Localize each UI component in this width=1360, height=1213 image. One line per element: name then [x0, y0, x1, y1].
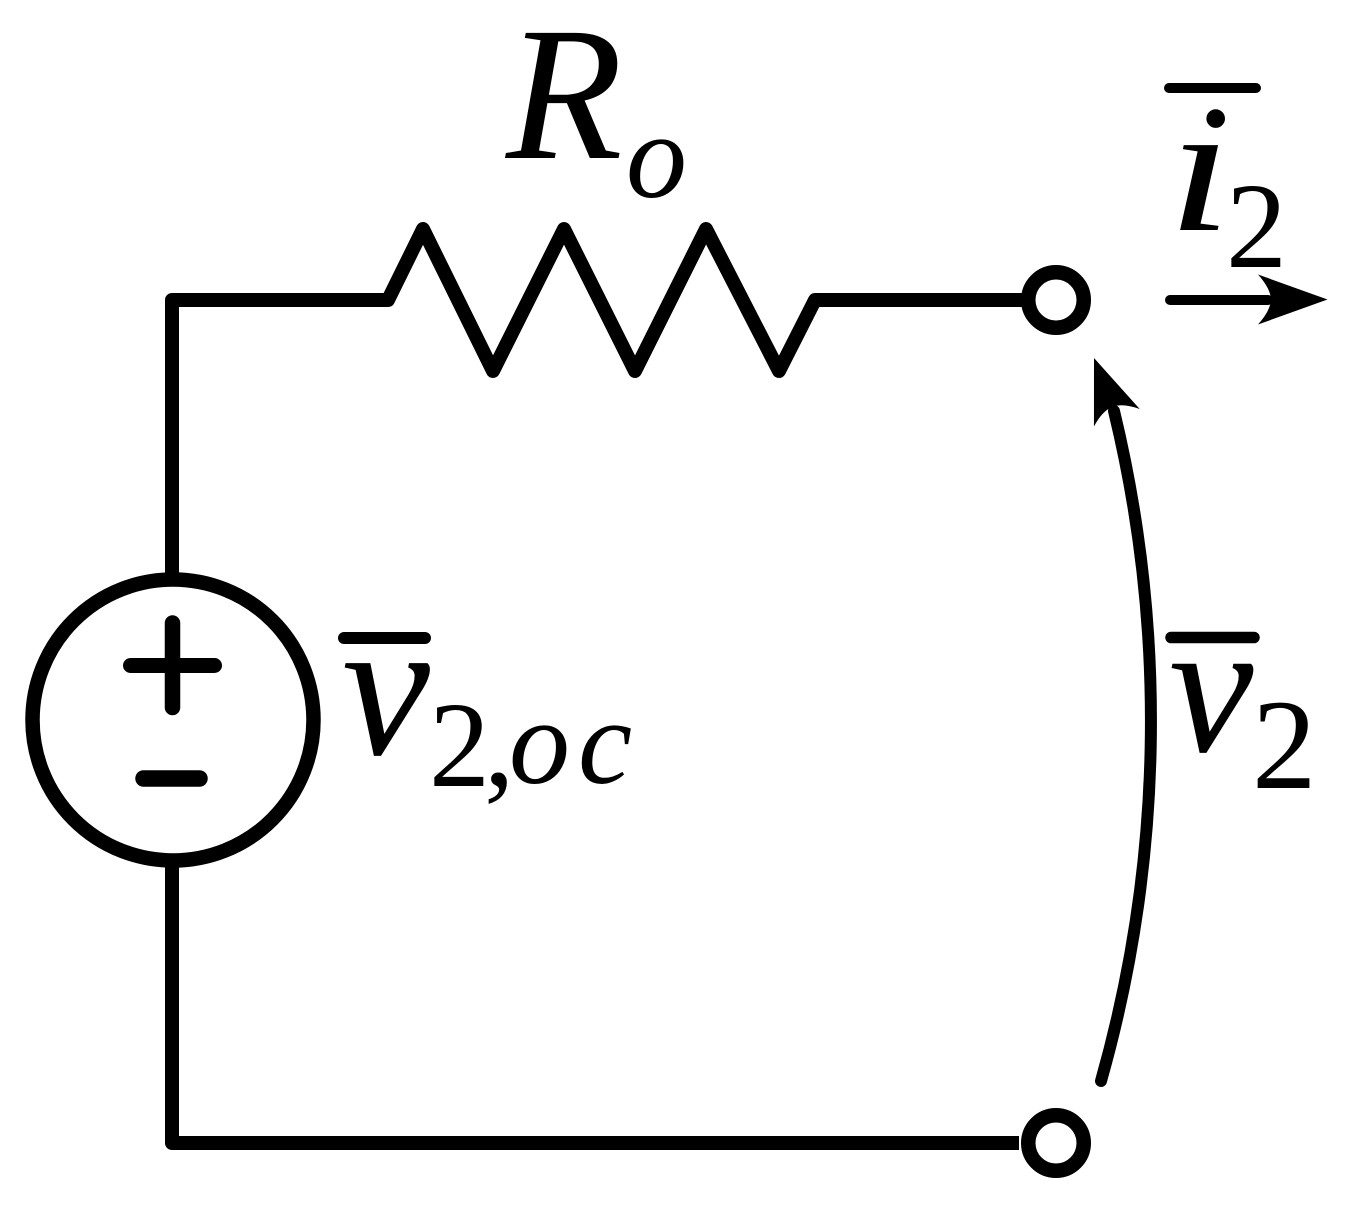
- resistor R_o zigzag and right top wire: [370, 229, 1026, 371]
- voltage arc arrow v2 (curved shaft): [1101, 411, 1151, 1081]
- svg-text:2: 2: [429, 678, 490, 813]
- voltage arc arrow v2 head: [1071, 349, 1140, 426]
- label i2 overbar: [1169, 83, 1256, 93]
- svg-text:oc: oc: [509, 675, 640, 810]
- label v2 (right): [1169, 583, 1317, 816]
- minus polarity mark: [144, 770, 200, 787]
- terminal bottom-right: [1028, 1115, 1084, 1171]
- label R_o: [504, 0, 687, 224]
- label i2 subscript 2: [1226, 159, 1287, 294]
- svg-text:o: o: [626, 89, 687, 224]
- current arrow i2 shaft: [1170, 295, 1268, 305]
- label i2 body (dotless i): [1168, 66, 1233, 271]
- wire left and bottom loop: [172, 300, 1019, 1143]
- svg-text:ı: ı: [1168, 66, 1233, 271]
- plus polarity mark: [131, 623, 215, 708]
- current arrow i2 head: [1258, 275, 1328, 325]
- svg-text:2: 2: [1252, 673, 1317, 816]
- svg-text:2: 2: [1226, 159, 1287, 294]
- label v2 (right) overbar: [1171, 632, 1254, 644]
- label v2,oc overbar: [344, 632, 425, 644]
- svg-text:v: v: [342, 578, 430, 797]
- svg-text:v: v: [1169, 583, 1254, 793]
- svg-text:R: R: [504, 0, 623, 200]
- terminal top-right: [1028, 272, 1084, 328]
- label i2 dot: [1206, 109, 1225, 128]
- label v2,oc: [342, 578, 640, 813]
- voltage source V (v2,oc) circle: [33, 580, 314, 861]
